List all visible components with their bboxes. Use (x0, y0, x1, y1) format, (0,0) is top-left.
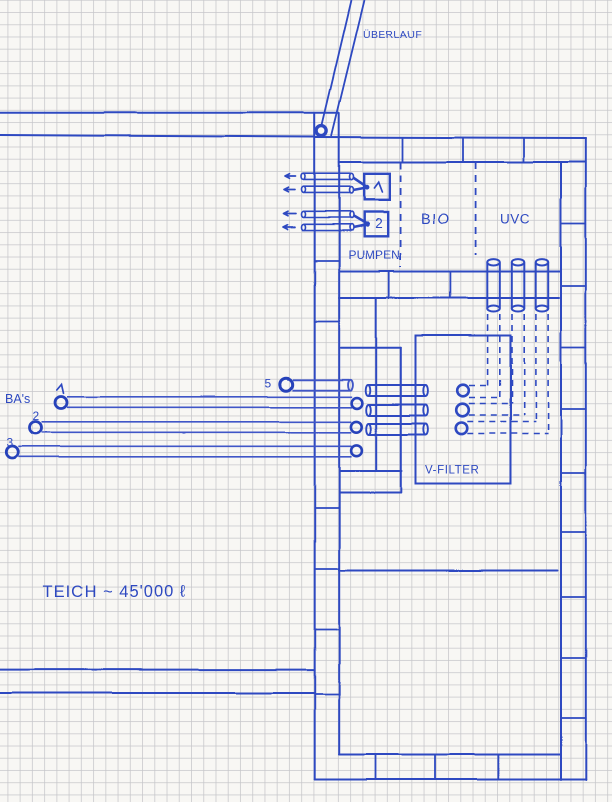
svg-text:2: 2 (33, 409, 40, 423)
svg-text:BIO: BIO (421, 212, 451, 228)
svg-text:2: 2 (375, 216, 383, 231)
svg-text:TEICH ~ 45'000 ℓ: TEICH ~ 45'000 ℓ (43, 583, 186, 601)
svg-text:V-FILTER: V-FILTER (425, 465, 479, 477)
svg-text:3: 3 (7, 436, 14, 450)
svg-text:UVC: UVC (500, 212, 530, 227)
svg-text:PUMPEN: PUMPEN (348, 248, 400, 262)
svg-text:BA's: BA's (5, 392, 30, 406)
svg-text:ÜBERLAUF: ÜBERLAUF (363, 29, 422, 41)
svg-text:5: 5 (265, 377, 272, 391)
